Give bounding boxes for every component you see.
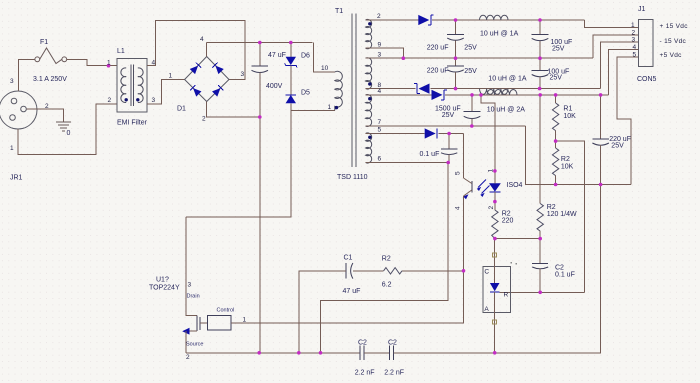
svg-text:10 uH @ 2A: 10 uH @ 2A bbox=[487, 107, 526, 114]
diode D1 upper-right bbox=[212, 63, 223, 74]
inductor 10uH 1A lower arcs down bbox=[480, 89, 508, 95]
svg-text:3: 3 bbox=[10, 78, 14, 85]
optocoupler ISO4 phototransistor bbox=[463, 134, 472, 271]
inductor 10uH 2A arcs up bbox=[487, 90, 517, 95]
svg-text:2: 2 bbox=[186, 354, 190, 361]
wire bias node down to control loop bbox=[321, 163, 449, 353]
svg-text:0: 0 bbox=[67, 130, 71, 137]
junction pin6 rail end bbox=[446, 161, 450, 165]
junction R2 220 bottom bbox=[493, 237, 497, 241]
svg-text:2.2 nF: 2.2 nF bbox=[384, 370, 404, 377]
svg-text:D5: D5 bbox=[301, 90, 310, 97]
junction D6 top bbox=[289, 41, 293, 45]
svg-text:+ 15 Vdc: + 15 Vdc bbox=[660, 23, 689, 30]
junction rail D R1 bbox=[554, 93, 558, 97]
svg-text:5: 5 bbox=[378, 127, 382, 134]
capacitor 0.1uF bias bbox=[441, 134, 457, 163]
svg-text:4: 4 bbox=[378, 88, 382, 95]
wire pin2 line to diode bbox=[366, 19, 419, 21]
junction rail A 220uF bbox=[454, 18, 458, 22]
dot T1 winding 2-9 bbox=[368, 22, 371, 25]
svg-text:47 uF: 47 uF bbox=[343, 288, 361, 295]
svg-text:C2: C2 bbox=[358, 340, 367, 347]
dot T1 winding 5-6 bbox=[368, 136, 371, 139]
wire rail to T1 pin10 bbox=[314, 43, 335, 73]
dot T1 winding 4-7 bbox=[368, 97, 371, 100]
transformer T1 secondary winding pins 3-8 bbox=[366, 58, 372, 89]
svg-text:6: 6 bbox=[378, 156, 382, 163]
IC U1 TOP224Y source lead with arrow bbox=[182, 328, 197, 353]
junction rail A 100uF bbox=[538, 18, 542, 22]
wire pin7 rail down to +5 return rail bbox=[525, 126, 631, 185]
svg-text:10: 10 bbox=[321, 65, 329, 72]
junction rail D feedback tap bbox=[479, 93, 483, 97]
svg-text:EMI Filter: EMI Filter bbox=[117, 120, 148, 127]
svg-text:T1: T1 bbox=[335, 8, 343, 15]
wire D5 anode to T1 pin1 and down to drain bbox=[291, 109, 335, 111]
junction source rail TL431 anode bbox=[493, 351, 497, 355]
resistor R2 6.2 bbox=[384, 268, 402, 274]
wire bridge D1 bottom stub bbox=[207, 102, 260, 118]
diode D4 output +5 bbox=[432, 90, 447, 100]
resistor R1 10K bbox=[552, 95, 558, 141]
junction R2 120 bottom bbox=[538, 237, 542, 241]
transformer T1 core bbox=[352, 14, 356, 168]
svg-text:4: 4 bbox=[200, 36, 204, 43]
svg-text:1: 1 bbox=[328, 104, 332, 111]
wire JR1 pin1 to L1 pin2 bbox=[18, 104, 117, 154]
svg-text:4: 4 bbox=[455, 206, 462, 210]
svg-text:CON5: CON5 bbox=[637, 76, 657, 83]
svg-text:C2: C2 bbox=[555, 265, 564, 272]
node rail C -15V bbox=[431, 88, 601, 90]
svg-text:220: 220 bbox=[502, 218, 514, 225]
artifact dots near TL431 bbox=[511, 262, 518, 265]
svg-text:25V: 25V bbox=[550, 75, 563, 82]
svg-text:+5 Vdc: +5 Vdc bbox=[660, 52, 683, 59]
node DC+ rail from bridge top bbox=[207, 42, 313, 44]
transformer T1 secondary winding pins 4-7 bbox=[366, 94, 372, 126]
capacitor 100uF 25V first bbox=[532, 20, 549, 58]
svg-text:D6: D6 bbox=[301, 53, 310, 60]
junction source rail loop leg bbox=[319, 351, 323, 355]
svg-text:C1: C1 bbox=[344, 255, 353, 262]
svg-text:10 uH @ 1A: 10 uH @ 1A bbox=[480, 31, 519, 38]
junction C2 bottom ref bbox=[538, 291, 542, 295]
transformer T1 secondary winding pins 2-9 bbox=[366, 19, 372, 48]
svg-text:3: 3 bbox=[241, 71, 245, 78]
svg-text:1: 1 bbox=[10, 145, 14, 152]
junction rail C 220uF bbox=[454, 87, 458, 91]
capacitor 47uF 400V bbox=[252, 43, 269, 118]
capacitor C2 2.2nF left bbox=[360, 346, 364, 360]
wire R1 R2 divider tap to TL431 ref bbox=[556, 141, 585, 292]
svg-text:4: 4 bbox=[633, 44, 637, 51]
svg-text:4: 4 bbox=[152, 60, 156, 67]
dot T1 primary bbox=[335, 106, 338, 109]
dot L1 right winding bbox=[136, 98, 139, 101]
svg-text:C: C bbox=[484, 269, 489, 276]
polarity dots bbox=[125, 22, 372, 139]
svg-text:2: 2 bbox=[632, 29, 636, 36]
transformer T1 secondary winding pins 5-6 bbox=[366, 133, 372, 163]
svg-text:2.2 nF: 2.2 nF bbox=[355, 370, 375, 377]
svg-text:3: 3 bbox=[378, 51, 382, 58]
junction source rail 47uF return bbox=[257, 351, 261, 355]
IC U1 TOP224Y control box bbox=[200, 316, 231, 331]
svg-text:47 uF: 47 uF bbox=[268, 52, 286, 59]
svg-text:D1: D1 bbox=[177, 106, 186, 113]
optocoupler ISO4 LED bbox=[489, 171, 501, 210]
svg-text:- 15 Vdc: - 15 Vdc bbox=[660, 38, 687, 45]
junction opto emitter comp bbox=[462, 269, 466, 273]
svg-text:2: 2 bbox=[108, 97, 112, 104]
svg-text:3: 3 bbox=[188, 282, 192, 289]
shunt regulator U2 TL431 symbol bbox=[490, 239, 509, 353]
junction rail C 100uF bbox=[538, 87, 542, 91]
svg-text:2: 2 bbox=[488, 206, 495, 210]
capacitor 220uF 25V first bbox=[447, 20, 464, 58]
svg-text:1: 1 bbox=[243, 317, 247, 324]
svg-text:J1: J1 bbox=[638, 6, 646, 13]
diode D1 upper-left bbox=[190, 63, 201, 74]
svg-text:F1: F1 bbox=[40, 39, 48, 46]
junction rail B 220uF bbox=[454, 56, 458, 60]
wire pin9 jog to rail B bbox=[366, 48, 404, 58]
node pin7 rail bbox=[366, 125, 526, 127]
junction rail B 100uF bbox=[538, 56, 542, 60]
svg-text:2: 2 bbox=[45, 103, 49, 110]
svg-text:5: 5 bbox=[633, 52, 637, 59]
dot T1 winding 3-8 bbox=[368, 82, 371, 85]
svg-text:1: 1 bbox=[169, 73, 173, 80]
svg-text:U1?: U1? bbox=[156, 277, 169, 284]
svg-text:R2: R2 bbox=[382, 256, 391, 263]
svg-text:L1: L1 bbox=[117, 48, 125, 55]
diode D2 output +15 bbox=[418, 15, 433, 25]
wire C1 left down to source rail bbox=[299, 271, 346, 353]
svg-text:25V: 25V bbox=[442, 112, 455, 119]
svg-text:25V: 25V bbox=[464, 44, 477, 51]
wire rail A to J1 pin1 bbox=[585, 20, 639, 28]
wire L1 pin3 to bridge D1 left bbox=[147, 80, 185, 105]
junction 47uF top bbox=[258, 41, 262, 45]
svg-text:400V: 400V bbox=[266, 83, 283, 90]
capacitor C2 0.1uF bbox=[532, 239, 548, 293]
svg-text:1: 1 bbox=[488, 169, 495, 173]
bridge rectifier D1 outline bbox=[185, 57, 229, 102]
svg-text:Source: Source bbox=[186, 342, 203, 348]
svg-text:R1: R1 bbox=[563, 106, 572, 113]
wire J1 pin5 to +5 return rail bbox=[617, 57, 639, 185]
svg-text:TSD 1110: TSD 1110 bbox=[337, 174, 368, 181]
svg-text:220 uF: 220 uF bbox=[427, 44, 449, 51]
svg-text:9: 9 bbox=[378, 41, 382, 48]
resistor R2 10K bbox=[552, 141, 558, 184]
svg-text:R: R bbox=[504, 292, 509, 299]
junction rail D R2 120 bbox=[538, 93, 542, 97]
capacitor 220uF 25V output bbox=[592, 95, 609, 185]
shunt regulator U2 TL431 box bbox=[483, 267, 511, 313]
capacitor 100uF 25V second bbox=[532, 58, 549, 88]
junction source rail C1 leg bbox=[297, 351, 301, 355]
dot L1 left winding bbox=[125, 98, 128, 101]
svg-text:10K: 10K bbox=[563, 113, 576, 120]
svg-text:25V: 25V bbox=[552, 46, 565, 53]
junction bias diode 0.1uF bbox=[447, 132, 451, 136]
svg-text:10 uH @ 1A: 10 uH @ 1A bbox=[488, 76, 527, 83]
junction rail D 220uF out bbox=[599, 93, 603, 97]
diode D5 bbox=[286, 95, 296, 111]
svg-text:R2: R2 bbox=[502, 211, 511, 218]
svg-text:Drain: Drain bbox=[187, 294, 200, 300]
node rail A +15V bbox=[432, 19, 585, 21]
zener diode D6 bbox=[285, 43, 297, 95]
wire L1 pin4 over top to bridge D1 right bbox=[147, 20, 245, 79]
svg-text:1: 1 bbox=[631, 22, 635, 29]
svg-text:3: 3 bbox=[152, 97, 156, 104]
resistor R2 120 1/4W bbox=[537, 95, 543, 239]
wire source rail middle bbox=[364, 352, 389, 354]
svg-text:0.1 uF: 0.1 uF bbox=[420, 151, 440, 158]
svg-text:0.1 uF: 0.1 uF bbox=[555, 272, 575, 279]
junction rail D 1500uF bbox=[470, 93, 474, 97]
connector J1 body bbox=[639, 20, 654, 67]
svg-text:25V: 25V bbox=[611, 143, 624, 150]
wire rail D to J1 pin4 bbox=[609, 50, 639, 95]
wire control pin 1 stub bbox=[231, 322, 248, 324]
svg-text:2: 2 bbox=[202, 116, 206, 123]
svg-text:Control: Control bbox=[217, 308, 235, 314]
wire R2 220 to R2 120 node bbox=[495, 238, 540, 240]
svg-text:C2: C2 bbox=[388, 340, 397, 347]
junction return rail 220uF out bbox=[599, 183, 603, 187]
wire JR1 pin3 to fuse F1 bbox=[18, 59, 35, 91]
node source rail bbox=[186, 352, 360, 354]
diode D1 lower-left bbox=[190, 85, 201, 96]
wire rail C to J1 pin3 bbox=[601, 42, 639, 89]
svg-text:TOP224Y: TOP224Y bbox=[149, 285, 180, 292]
node pin6 rail bbox=[366, 162, 449, 164]
svg-text:25V: 25V bbox=[464, 68, 477, 75]
junction pin9 pin3 bbox=[402, 56, 406, 60]
junction ISO4 cathode bbox=[493, 200, 497, 204]
svg-text:6.2: 6.2 bbox=[382, 282, 392, 289]
wire output common right leg bbox=[600, 186, 602, 353]
connector JR1 body bbox=[0, 91, 37, 129]
junction ISO4 anode bbox=[493, 169, 497, 173]
optocoupler ISO4 light arrows bbox=[478, 180, 490, 194]
capacitor 1500uF 25V bbox=[464, 95, 481, 126]
inductor 10uH 1A top bbox=[480, 15, 508, 20]
ground 0 bbox=[56, 122, 71, 131]
IC U1 TOP224Y drain lead bbox=[186, 217, 197, 316]
transformer T1 primary winding bbox=[335, 71, 343, 110]
svg-text:JR1: JR1 bbox=[10, 175, 23, 182]
node rail D +5V bbox=[445, 94, 608, 96]
wire pin4 to diode bbox=[366, 94, 432, 96]
capacitor 220uF 25V second bbox=[447, 58, 464, 88]
testpoint square above TL431 bbox=[492, 253, 496, 257]
svg-text:A: A bbox=[484, 306, 489, 313]
svg-text:1: 1 bbox=[107, 60, 111, 67]
junction L1 pin1 bbox=[107, 64, 111, 68]
svg-text:7: 7 bbox=[378, 119, 382, 126]
fuse F1 bbox=[35, 48, 67, 64]
svg-text:R2: R2 bbox=[547, 204, 556, 211]
wire 47uF bottom down to source rail bbox=[259, 117, 261, 353]
svg-text:ISO4: ISO4 bbox=[507, 182, 523, 189]
wire C1 R2 compensation line bbox=[402, 270, 464, 272]
wire clamp node down to drain line bbox=[186, 110, 291, 217]
wire pin5 line bbox=[366, 133, 425, 135]
wire JR1 pin2 to ground bbox=[26, 109, 63, 122]
junction 47uF bottom bbox=[258, 115, 262, 119]
node rail B common bbox=[366, 57, 593, 59]
svg-text:3: 3 bbox=[632, 37, 636, 44]
testpoint square below TL431 bbox=[492, 320, 496, 324]
svg-text:10K: 10K bbox=[561, 164, 574, 171]
IC U1 TOP224Y mosfet bars bbox=[197, 316, 200, 332]
wire feedback tap from rail D bbox=[481, 95, 495, 171]
svg-text:R2: R2 bbox=[561, 156, 570, 163]
diode D3 output -15 pointing left bbox=[366, 84, 430, 94]
wire fuse F1 to L1 pin 1 bbox=[67, 59, 117, 65]
wire TL431 ref node bbox=[509, 291, 585, 293]
junction pin7 rail 1500uF bbox=[470, 124, 474, 128]
diode D7 bias bbox=[425, 128, 464, 138]
wire source rail right bbox=[394, 352, 601, 354]
junction divider tap bbox=[554, 139, 558, 143]
resistor R2 220 bbox=[492, 210, 498, 239]
wire output common down to bottom rail bbox=[600, 185, 602, 353]
svg-text:2: 2 bbox=[377, 13, 381, 20]
diode D1 lower-right bbox=[212, 85, 223, 96]
wire control loop upper bbox=[231, 271, 464, 323]
wire rail B to J1 pin2 bbox=[593, 35, 639, 58]
EMI filter L1 box bbox=[117, 58, 147, 111]
svg-text:5: 5 bbox=[455, 171, 462, 175]
svg-text:120 1/4W: 120 1/4W bbox=[547, 211, 577, 218]
capacitor C1 47uF bbox=[346, 263, 383, 279]
wire bridge D1 top stub bbox=[206, 43, 208, 57]
svg-text:220 uF: 220 uF bbox=[427, 68, 449, 75]
capacitor C2 2.2nF right bbox=[389, 346, 393, 360]
svg-text:3.1 A 250V: 3.1 A 250V bbox=[33, 76, 67, 83]
junction return rail R2 10K bbox=[554, 183, 558, 187]
EMI filter L1 windings bbox=[121, 65, 143, 107]
